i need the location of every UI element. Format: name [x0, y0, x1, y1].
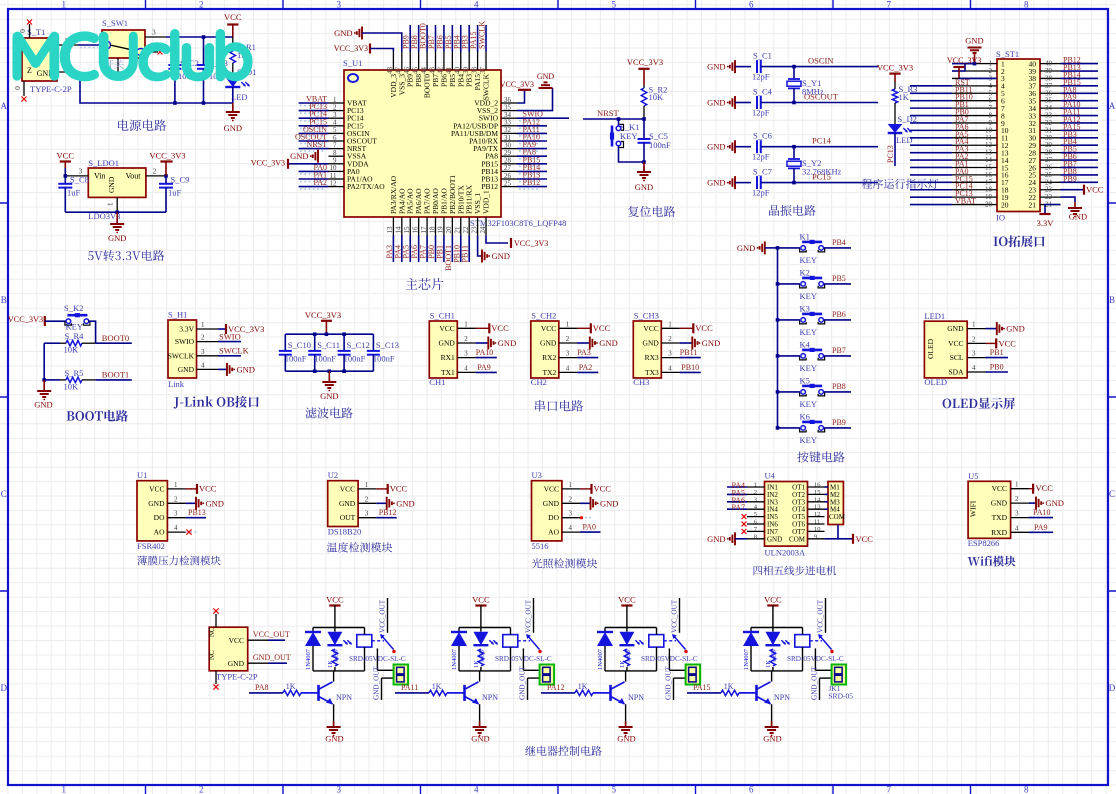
pin VCC out: [248, 639, 268, 641]
svg-text:12pF: 12pF: [752, 188, 770, 198]
pin 10 U4 OT7: [808, 530, 825, 532]
svg-text:VCC_3V3: VCC_3V3: [947, 56, 981, 65]
svg-text:2: 2: [201, 334, 205, 342]
svg-text:NRST: NRST: [597, 108, 620, 118]
wire pin21 3.3V: [1045, 205, 1061, 215]
svg-text:3: 3: [464, 350, 468, 358]
resistor 1K base PA8: [283, 690, 301, 695]
pin 20 S_ST1: [952, 204, 997, 206]
svg-text:2: 2: [199, 785, 204, 794]
svg-text:PA9: PA9: [477, 363, 491, 372]
wires U4 to motor connector: [825, 486, 829, 488]
svg-text:IO: IO: [996, 213, 1005, 223]
svg-text:DS18B20: DS18B20: [328, 527, 362, 537]
svg-text:VCC: VCC: [472, 595, 490, 605]
svg-text:Vout: Vout: [126, 172, 142, 181]
svg-text:PA8: PA8: [255, 683, 269, 692]
svg-text:44: 44: [420, 67, 428, 75]
svg-text:S_C13: S_C13: [376, 340, 399, 350]
pin 2 S_T1 GND: [57, 71, 80, 73]
no-connect U4 pin 5: [742, 514, 747, 519]
wire node PB9: [409, 25, 411, 52]
wire node PB7: [435, 25, 437, 52]
wire node PB7: [1061, 166, 1099, 168]
ground S_C7: [734, 176, 736, 189]
terminal GND_OUT wire: [528, 677, 540, 679]
svg-text:PB11: PB11: [680, 348, 698, 357]
svg-text:ULN2003A: ULN2003A: [765, 548, 806, 558]
pin 12 U4 OT5: [808, 516, 825, 518]
pin 13 S_ST1: [952, 152, 997, 154]
wire node PB13: [186, 517, 206, 519]
resistor 1K base PA12: [575, 690, 593, 695]
wire node PB0: [435, 236, 437, 263]
relay contact common VCC_OUT PA8: [387, 598, 389, 633]
svg-text:3: 3: [337, 0, 342, 10]
wire node PB9: [824, 427, 851, 429]
svg-text:0: 0: [13, 86, 22, 90]
svg-text:S_C8: S_C8: [70, 175, 89, 185]
svg-text:1: 1: [464, 320, 468, 328]
title Wifi模块: [968, 556, 1016, 567]
pin 2 S_U1 PC13: [329, 110, 345, 112]
pin 35 S_ST1: [1040, 100, 1061, 102]
wire node PB13: [1061, 70, 1099, 72]
svg-text:9: 9: [814, 533, 817, 540]
power VCC U1: [186, 488, 197, 490]
svg-text:GND: GND: [228, 659, 245, 668]
power VCC S_CH3: [680, 327, 694, 329]
wire collector: [479, 671, 481, 682]
svg-text:20: 20: [985, 201, 993, 209]
svg-text:4: 4: [474, 785, 479, 794]
svg-text:1: 1: [972, 321, 976, 329]
title 温度检测模块: [327, 542, 392, 552]
wire node PB8: [824, 391, 851, 393]
svg-text:S_C11: S_C11: [317, 340, 340, 350]
switch S_SW1: [102, 30, 145, 58]
power VCC oled: [986, 342, 997, 344]
svg-text:K6: K6: [800, 411, 810, 421]
capacitor S_C4 12pF: [735, 102, 751, 104]
svg-text:OLED: OLED: [926, 338, 935, 359]
wire node PA12: [1061, 122, 1099, 124]
svg-text:S_C7: S_C7: [753, 167, 772, 177]
svg-text:Z: Z: [27, 66, 32, 75]
svg-text:WIFI: WIFI: [969, 500, 978, 517]
wire node VBAT: [910, 204, 952, 206]
svg-text:PB6: PB6: [832, 310, 846, 319]
capacitor S_C5 100nF: [643, 119, 645, 139]
svg-text:GND: GND: [617, 734, 635, 744]
svg-text:2: 2: [668, 335, 672, 343]
svg-text:GND: GND: [707, 98, 725, 108]
pin 30 S_ST1: [1040, 137, 1061, 139]
pin 33 S_ST1: [1040, 115, 1061, 117]
svg-text:PB9: PB9: [1063, 174, 1077, 183]
svg-text:23: 23: [470, 226, 478, 234]
relay coil PA8: [357, 635, 372, 648]
pin 15 U4 OT2: [808, 493, 825, 495]
pin 30 S_U1 PA9/TX: [501, 148, 517, 150]
svg-text:SWCLK: SWCLK: [219, 346, 250, 356]
svg-text:1K: 1K: [899, 92, 910, 102]
ground U3: [580, 502, 590, 504]
svg-text:100nF: 100nF: [373, 354, 395, 364]
pin 5 S_U1 OSCIN: [329, 132, 345, 134]
relay coil PA12: [649, 635, 664, 648]
svg-text:1: 1: [566, 320, 570, 328]
pin 38 S_U1 PA15: [477, 52, 479, 71]
transistor NPN PA12: [609, 685, 612, 701]
svg-text:KEY: KEY: [800, 255, 817, 265]
ground relay PA8: [333, 721, 335, 727]
svg-text:5: 5: [754, 511, 757, 518]
svg-text:SCL: SCL: [950, 353, 964, 362]
ground jlink: [218, 368, 227, 370]
svg-text:SWCLK: SWCLK: [168, 351, 195, 360]
diode 1N4007 PA12: [604, 628, 606, 632]
pin 8 S_U1 VSSA: [329, 155, 345, 157]
svg-text:PB7: PB7: [832, 346, 846, 355]
pin 3 S_U1 PC14: [329, 117, 345, 119]
svg-text:S_CH2: S_CH2: [531, 311, 556, 321]
pin 5 S_ST1: [952, 92, 997, 94]
label 开关: [104, 60, 123, 69]
svg-text:NPN: NPN: [628, 693, 644, 702]
crystal S_Y2 32.768KHz: [793, 147, 795, 159]
capacitor S_C10 100nF: [284, 334, 286, 351]
svg-text:5: 5: [612, 785, 617, 794]
wire node PB8: [418, 25, 420, 52]
diode 1N4007 PA8: [312, 628, 314, 632]
svg-text:GND: GND: [439, 339, 456, 348]
svg-text:SWIO: SWIO: [219, 332, 241, 342]
svg-text:BOOT0: BOOT0: [102, 333, 129, 343]
pin 16 S_ST1: [952, 174, 997, 176]
pin 34 S_ST1: [1040, 107, 1061, 109]
wire node PA12: [517, 125, 547, 127]
svg-text:VCC: VCC: [992, 484, 1007, 493]
wire node PB15: [1061, 85, 1099, 87]
svg-text:NPN: NPN: [482, 693, 498, 702]
svg-text:GND: GND: [707, 62, 725, 72]
svg-text:47: 47: [395, 67, 403, 75]
svg-text:13: 13: [386, 226, 394, 234]
terminal block PA8: [394, 665, 409, 685]
wire PC14: [794, 146, 878, 148]
wire rail left boot: [44, 342, 60, 344]
svg-text:37: 37: [479, 67, 487, 75]
svg-text:1: 1: [754, 482, 757, 489]
wire node BOOT1: [96, 379, 132, 381]
module U5 ESP8266: [968, 481, 1011, 538]
LED relay PA15: [772, 628, 774, 632]
svg-text:PC13: PC13: [886, 145, 895, 163]
svg-text:GND: GND: [643, 339, 660, 348]
pin 39 S_U1 PB3: [468, 52, 470, 71]
svg-text:S_U1: S_U1: [343, 58, 362, 68]
transistor NPN PA8: [317, 685, 320, 701]
pin 34 S_U1 SWIO: [501, 117, 517, 119]
svg-text:1K: 1K: [432, 682, 442, 691]
wire node BOOT0: [426, 25, 428, 52]
wire node PB1: [443, 236, 445, 263]
wire keys rail: [777, 248, 779, 428]
svg-text:VCC_OUT: VCC_OUT: [671, 599, 679, 633]
relay contact common VCC_OUT PA12: [679, 598, 681, 633]
svg-text:OLED: OLED: [924, 377, 947, 387]
svg-text:45: 45: [411, 67, 419, 75]
wire node PB0 oled: [986, 371, 1009, 373]
svg-text:FSR402: FSR402: [137, 541, 165, 551]
svg-text:K5: K5: [800, 375, 810, 385]
svg-text:RXD: RXD: [991, 528, 1007, 537]
svg-text:14: 14: [395, 226, 403, 234]
svg-text:1: 1: [107, 202, 115, 206]
wire collector: [333, 671, 335, 682]
relay coil PA11: [503, 635, 518, 648]
wire node PA11: [1061, 115, 1099, 117]
wire node PA15: [1061, 129, 1099, 131]
svg-text:12: 12: [330, 179, 338, 187]
wire node SWIO: [517, 117, 569, 119]
svg-text:17: 17: [420, 226, 428, 234]
pin 6 U4 IN6: [747, 523, 765, 525]
pin 1 S_LDO1 gnd: [116, 197, 118, 212]
header S_ST1 IO: [997, 59, 1040, 212]
svg-text:8MHz: 8MHz: [802, 87, 824, 97]
pin 25 S_ST1: [1040, 174, 1061, 176]
mcu S_U1 STM32F103C8T6: [344, 70, 501, 217]
svg-text:1N4007: 1N4007: [743, 648, 750, 670]
svg-text:GND: GND: [492, 251, 510, 261]
wire collector: [771, 671, 773, 682]
svg-text:K3: K3: [800, 303, 810, 313]
pin 2 S_ST1: [952, 70, 997, 72]
capacitor S_C6 12pF: [735, 146, 751, 148]
pin 0 top S_T1: [29, 24, 31, 38]
regulator S_LDO1: [88, 168, 146, 197]
pin 14 S_U1 PA4/AO: [401, 217, 403, 236]
wire relay bottom rail: [459, 670, 511, 672]
wire node PB4: [1061, 144, 1099, 146]
svg-text:21: 21: [454, 226, 462, 234]
svg-text:GND: GND: [947, 324, 964, 333]
pin 11 S_ST1: [952, 137, 997, 139]
wire node PB8: [1061, 174, 1099, 176]
svg-text:CH3: CH3: [633, 377, 649, 387]
transistor NPN PA15: [755, 685, 758, 701]
svg-text:VCC_OUT: VCC_OUT: [817, 599, 825, 633]
wire VSS_2 to GND: [517, 88, 553, 111]
LED relay PA8: [334, 628, 336, 632]
ground relay PA11: [479, 721, 481, 727]
pin 19 S_ST1: [952, 196, 997, 198]
title 晶振电路: [769, 205, 816, 216]
title 按键电路: [797, 451, 844, 462]
svg-text:LED1: LED1: [924, 311, 945, 321]
pin 39 S_ST1: [1040, 70, 1061, 72]
svg-text:GND: GND: [224, 123, 242, 133]
wire VSS_3 to gnd: [362, 33, 402, 52]
pin 47 S_U1 VSS_3: [401, 52, 403, 71]
svg-text:KEY: KEY: [800, 327, 817, 337]
svg-text:BOOT1: BOOT1: [102, 370, 129, 380]
pin 31 S_U1 PA10/RX: [501, 140, 517, 142]
svg-text:KEY: KEY: [800, 435, 817, 445]
svg-text:U3: U3: [532, 470, 542, 480]
pin 35 S_U1 VSS_2: [501, 110, 517, 112]
pin 17 S_ST1: [952, 181, 997, 183]
wire node BOOT0: [96, 342, 132, 344]
svg-text:Link: Link: [168, 379, 185, 389]
header S_H1 jlink: [168, 320, 197, 378]
svg-text:GND: GND: [1046, 498, 1064, 508]
power VCC: [232, 25, 234, 38]
svg-text:12pF: 12pF: [752, 108, 770, 118]
ground top right of chip: [545, 87, 547, 89]
svg-text:SRD-05: SRD-05: [828, 692, 853, 701]
wire node PA6: [910, 129, 952, 131]
resistor 1K led PA12: [624, 649, 629, 666]
wire node PA4: [727, 486, 747, 488]
svg-text:1uF: 1uF: [67, 188, 81, 198]
svg-text:22: 22: [462, 226, 470, 234]
power VCC_3V3 top of chip: [369, 44, 371, 54]
svg-text:3.3V: 3.3V: [1037, 218, 1055, 228]
svg-text:S_R4: S_R4: [65, 331, 85, 341]
pin 14 U4 OT3: [808, 501, 825, 503]
pin 8 U4 GND: [747, 538, 765, 540]
capacitor S_C1 12pF: [735, 66, 751, 68]
svg-text:PB12: PB12: [481, 182, 498, 191]
svg-text:PA7: PA7: [732, 503, 746, 512]
svg-text:GND: GND: [1006, 324, 1024, 334]
svg-text:3: 3: [754, 496, 757, 503]
title OLED显示屏: [943, 397, 1016, 409]
wire node PB11: [468, 236, 470, 263]
wire PC15: [794, 182, 878, 184]
svg-text:20: 20: [445, 226, 453, 234]
svg-text:VCC: VCC: [149, 484, 164, 493]
wire relay top rail: [605, 627, 657, 629]
wire filter bottom rail: [285, 370, 373, 372]
title 薄膜压力检测模块: [137, 556, 220, 566]
svg-text:GND: GND: [396, 498, 414, 508]
svg-text:5516: 5516: [532, 541, 549, 551]
svg-text:PA3: PA3: [577, 348, 591, 357]
title 程序运行指示灯: [862, 179, 938, 189]
wire ldo bottom rail: [65, 211, 166, 213]
wire node PB4: [460, 25, 462, 52]
display LED1 OLED: [924, 321, 967, 378]
svg-text:A: A: [1109, 101, 1116, 111]
svg-text:1: 1: [668, 320, 672, 328]
svg-text:K1: K1: [800, 231, 810, 241]
svg-text:10K: 10K: [64, 382, 80, 392]
pin 0 bottom S_T1: [23, 81, 25, 96]
pin 19 S_U1 PB1/AO: [443, 217, 445, 236]
power VSSA gnd S_U1 pin8: [317, 150, 319, 163]
svg-text:GND: GND: [471, 734, 489, 744]
pin 15 S_ST1: [952, 166, 997, 168]
svg-text:KEY: KEY: [800, 291, 817, 301]
capacitor S_C8 1uF: [64, 176, 66, 184]
svg-text:3: 3: [569, 510, 573, 518]
relay actuator dashes: [664, 640, 676, 642]
svg-text:PB12: PB12: [379, 508, 397, 517]
svg-text:VCC_3V3: VCC_3V3: [8, 315, 44, 324]
pin S_SW1 lower right no-connect: [145, 51, 158, 53]
ground power circuit: [232, 103, 234, 112]
svg-text:2: 2: [365, 495, 369, 503]
ground S_CH3: [680, 342, 693, 344]
no-connect dot U3 pin 3: [580, 516, 583, 519]
wire VDD_1 to vcc: [486, 236, 508, 244]
svg-text:48: 48: [386, 67, 394, 75]
svg-text:21: 21: [1029, 200, 1037, 209]
svg-text:VCC: VCC: [541, 324, 556, 333]
svg-text:D: D: [1, 683, 8, 693]
svg-text:VCC: VCC: [199, 483, 217, 493]
header S_CH3 serial: [633, 321, 661, 378]
svg-text:GND: GND: [543, 499, 560, 508]
wire pin22 gnd: [1061, 197, 1076, 202]
wire node PA7: [910, 122, 952, 124]
relay NO contact to terminal: [376, 648, 378, 670]
wire OSCOUT: [794, 102, 878, 104]
svg-text:10K: 10K: [649, 92, 665, 102]
svg-text:GND: GND: [339, 499, 356, 508]
pin GND out: [248, 662, 268, 664]
pin 13 U4 OT4: [808, 508, 825, 510]
wire node PB1 oled: [986, 357, 1009, 359]
svg-text:S_CH3: S_CH3: [634, 311, 659, 321]
wire node PB11: [910, 92, 952, 94]
ground filter: [328, 371, 330, 382]
wire key left: [778, 283, 801, 285]
svg-text:VCC: VCC: [57, 151, 75, 161]
svg-text:GND: GND: [178, 365, 195, 374]
svg-text:11: 11: [814, 519, 820, 526]
pin 31 S_ST1: [1040, 129, 1061, 131]
pin 10 S_U1 PA0: [329, 170, 345, 172]
svg-text:GND: GND: [707, 178, 725, 188]
svg-text:25: 25: [504, 179, 512, 187]
wire relay bottom rail: [605, 670, 657, 672]
pin 32 S_U1 PA11/USB/DM: [501, 132, 517, 134]
svg-text:GND: GND: [290, 151, 308, 161]
svg-text:41: 41: [445, 67, 453, 75]
pin 23 S_ST1: [1040, 189, 1061, 191]
title 复位电路: [628, 206, 675, 217]
pin 12 S_U1 PA2/TX/AO: [329, 186, 345, 188]
wire keys gnd feed: [765, 247, 778, 249]
title J-Link OB接口: [174, 396, 259, 409]
svg-text:VCC: VCC: [999, 338, 1017, 348]
wire node PC15: [910, 181, 952, 183]
diode 1N4007 PA11: [458, 628, 460, 632]
wire relay bottom rail: [313, 670, 365, 672]
svg-text:SDA: SDA: [948, 368, 964, 377]
ground S_CH2: [577, 342, 590, 344]
wire node SWCLK jlink: [218, 355, 241, 357]
svg-text:GND_OUT: GND_OUT: [253, 653, 291, 662]
resistor S_R5 10K: [60, 379, 66, 381]
svg-text:GND: GND: [34, 400, 52, 410]
svg-text:7: 7: [887, 0, 892, 10]
